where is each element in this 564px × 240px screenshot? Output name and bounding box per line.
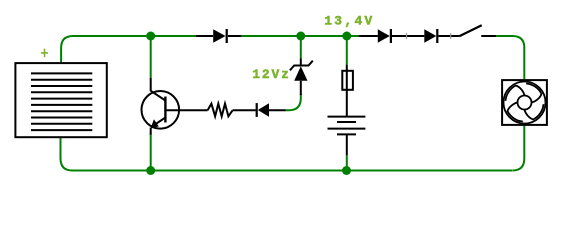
wire top rail between diode D1 and node 13,4V [241, 35, 359, 37]
wire collector drop [150, 36, 152, 78]
battery B1 plate long bottom [328, 128, 366, 130]
solar panel PV1 body [15, 63, 106, 137]
switch S1 lever [459, 25, 482, 36]
diode D3 triangle [378, 29, 390, 42]
fan M1 body [502, 80, 547, 125]
transistor Q1 collector lead [150, 78, 152, 92]
transistor Q1 base bar [164, 97, 166, 123]
zener diode ZD1 triangle [294, 66, 307, 81]
fan M1 hub [518, 96, 532, 110]
wire diode D4 to switch [438, 35, 459, 37]
diode D1 triangle [213, 29, 225, 42]
battery B1 plate short [337, 121, 356, 123]
wire from switch to fan top [496, 36, 524, 80]
wire bottom rail [150, 170, 512, 172]
wire diode D3 to diode D4 [392, 35, 424, 37]
wire bottom-left from solar panel to bottom rail [61, 137, 151, 170]
switch S1 right contact [481, 35, 496, 37]
junction node bottom-left [146, 166, 155, 175]
wire black top right run [359, 35, 378, 37]
wire diode D2 to zener curve [269, 109, 286, 111]
transistor Q1 emitter lead [150, 128, 152, 135]
diode D2 (points left) [256, 103, 258, 117]
wire fuse top drop [346, 36, 348, 65]
fan M1 outer circle [504, 82, 546, 124]
transistor Q1 emitter diagonal with arrow [152, 118, 166, 127]
diode D1 lead right [228, 35, 241, 37]
wire zener top drop [300, 36, 302, 59]
diode D4 triangle [424, 29, 436, 42]
svg-text:13,4V: 13,4V [324, 14, 374, 29]
label + polarity of solar panel [41, 49, 48, 57]
wire zener bottom to base chain [285, 94, 301, 110]
transistor Q1 base lead [165, 109, 207, 111]
zener diode ZD1 lead bottom [300, 81, 302, 95]
junction node 13,4V right [342, 32, 351, 41]
zener diode ZD1 12Vz lead top [300, 59, 302, 67]
junction node 13,4V left [296, 32, 305, 41]
wire battery bottom to bottom rail [346, 155, 348, 171]
wire from fan bottom to bottom rail [512, 125, 524, 171]
svg-text:12Vz: 12Vz [252, 67, 291, 82]
pin tick [406, 33, 408, 39]
fan M1 blades [506, 84, 544, 122]
fuse F1 lead through [346, 65, 348, 117]
zener diode ZD1 cathode bar with bends [290, 61, 313, 71]
wire resistor to diode D2 [233, 109, 256, 111]
battery B1 lead bottom [346, 134, 348, 155]
battery B1 plate long top [328, 116, 366, 118]
junction node top-left [146, 32, 155, 41]
transistor Q1 collector diagonal [151, 91, 166, 101]
transistor Q1 circle [142, 91, 180, 129]
diode D3 cathode bar [390, 29, 392, 43]
diode D1 cathode bar [226, 29, 228, 43]
fuse F1 body [342, 71, 353, 90]
diode D4 cathode bar [436, 29, 438, 43]
resistor R1 [208, 104, 233, 117]
pin tick [450, 33, 452, 39]
junction node bottom-right [342, 166, 351, 175]
solar panel PV1 grid lines [31, 73, 92, 130]
wire emitter to bottom rail [150, 133, 152, 171]
battery B1 plate short bottom [337, 133, 356, 135]
diode D1 lead left [196, 35, 213, 37]
wire top-left from solar panel to top rail [61, 36, 196, 63]
